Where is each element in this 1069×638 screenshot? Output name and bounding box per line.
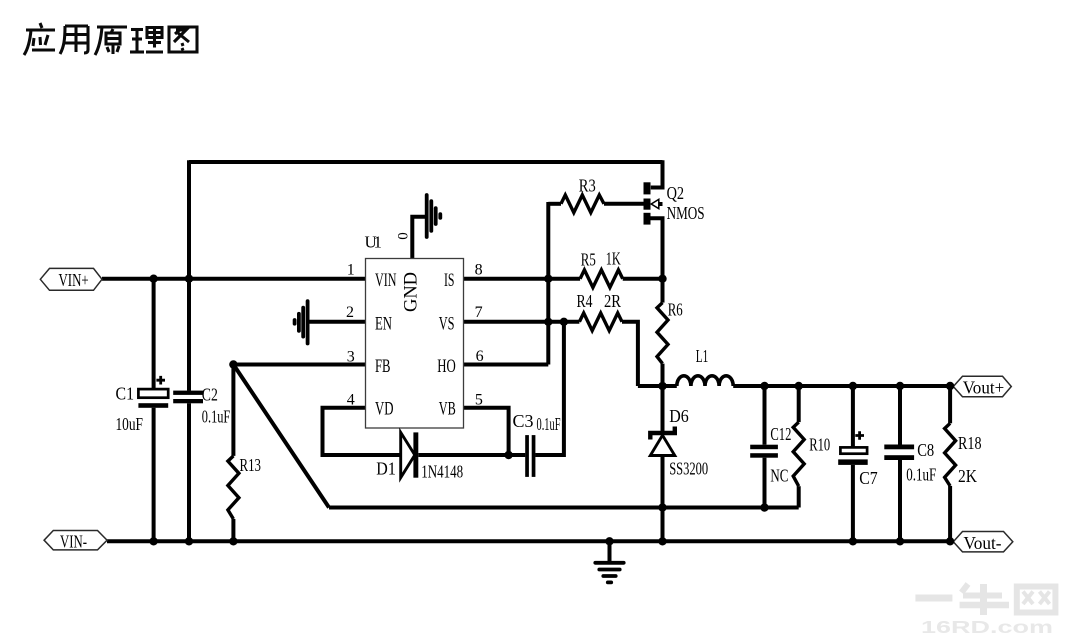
wire VD loop: pin4 left down and right to D1 anode xyxy=(323,408,401,455)
svg-text:L1: L1 xyxy=(696,346,709,366)
svg-text:R18: R18 xyxy=(958,433,982,453)
svg-text:C2: C2 xyxy=(202,385,218,405)
svg-text:GND: GND xyxy=(402,272,422,312)
op-amp U1 box xyxy=(366,259,464,429)
wire C7 top lead xyxy=(851,386,855,447)
wire C1 top lead xyxy=(152,279,156,389)
resistor R3 xyxy=(561,195,604,213)
svg-text:VIN+: VIN+ xyxy=(59,270,89,290)
wire R5 node down to R6 top xyxy=(661,279,665,303)
wire R3 right lead to Q2 gate xyxy=(604,202,644,206)
wire C3 right plate to VS riser xyxy=(535,322,564,455)
ground at U1 GND pin xyxy=(427,195,441,237)
capacitor C2 xyxy=(173,391,203,404)
svg-text:1K: 1K xyxy=(606,249,621,269)
capacitor C3 xyxy=(525,435,535,477)
svg-text:R4: R4 xyxy=(577,291,593,311)
svg-text:0: 0 xyxy=(396,232,412,240)
svg-text:VD: VD xyxy=(375,399,394,419)
svg-text:R13: R13 xyxy=(240,455,262,475)
resistor R18 xyxy=(945,423,956,486)
wire R13 bottom lead xyxy=(231,519,235,541)
wire IS pin8 to R5 xyxy=(464,277,581,281)
wire VB pin5 right and down to D1-C3 junction xyxy=(464,408,509,455)
svg-text:FB: FB xyxy=(375,357,391,377)
wire R13 top lead xyxy=(231,365,235,456)
wire top rail from C2 riser to Q2 drain xyxy=(189,160,663,164)
svg-text:Vout+: Vout+ xyxy=(963,378,1005,398)
title 应用原理图 (hand-drawn strokes) xyxy=(24,23,197,55)
svg-text:SS3200: SS3200 xyxy=(669,459,708,479)
svg-text:C12: C12 xyxy=(770,424,791,444)
char 应 xyxy=(24,23,55,55)
svg-text:3: 3 xyxy=(347,349,355,366)
inductor L1 xyxy=(677,376,733,386)
wire C1 bottom lead xyxy=(152,408,156,543)
transistor Q2 xyxy=(644,182,663,224)
svg-text:U1: U1 xyxy=(365,233,383,252)
svg-text:1: 1 xyxy=(347,262,355,279)
wire R3 left lead xyxy=(548,202,561,206)
svg-text:5: 5 xyxy=(475,392,483,409)
wire R18 bottom lead xyxy=(948,486,952,541)
svg-text:Q2: Q2 xyxy=(667,183,685,203)
svg-text:D6: D6 xyxy=(669,406,689,426)
wire bottom rail VIN- to Vout- xyxy=(107,539,953,543)
svg-text:C1: C1 xyxy=(116,384,135,404)
wire VIN+ line to U1 pin1 xyxy=(102,277,366,281)
svg-text:10uF: 10uF xyxy=(116,414,144,434)
node Vout- terminal xyxy=(953,532,1013,552)
svg-text:R5: R5 xyxy=(581,250,596,270)
wire riser x=548.3 R3 to HO xyxy=(546,202,550,365)
wire D6 anode lead to feedback junction and bottom rail xyxy=(661,456,665,542)
capacitor C1 xyxy=(138,376,168,408)
svg-text:VIN-: VIN- xyxy=(60,531,87,551)
capacitor C8 xyxy=(884,445,914,461)
svg-text:8: 8 xyxy=(475,262,483,279)
wire Q2 source lead down to R5 node xyxy=(651,218,663,278)
wire D1 cathode to VB junction xyxy=(418,453,525,457)
svg-text:2K: 2K xyxy=(958,466,977,486)
svg-text:NC: NC xyxy=(770,466,788,486)
wire FB diagonal to feedback line xyxy=(233,365,329,508)
char 原 xyxy=(95,27,127,55)
wire FB pin to node xyxy=(233,363,365,367)
wire HO pin6 to riser xyxy=(464,363,549,367)
wire Q2 drain lead xyxy=(651,160,663,187)
svg-text:VIN: VIN xyxy=(375,271,397,291)
wire EN ground to U1 pin2 xyxy=(309,320,365,324)
svg-text:7: 7 xyxy=(475,304,483,321)
capacitor C7 xyxy=(838,431,868,465)
svg-text:D1: D1 xyxy=(376,459,396,479)
wire C7 bottom lead xyxy=(851,465,855,541)
svg-text:0.1uF: 0.1uF xyxy=(202,407,231,427)
ground at U1 EN pin xyxy=(295,301,308,343)
svg-text:0.1uF: 0.1uF xyxy=(537,414,561,434)
svg-text:2: 2 xyxy=(346,304,354,321)
wire left riser x=189 top rail to C2 top plate xyxy=(187,160,191,391)
diode D6 SS3200 xyxy=(650,427,675,456)
resistor R10 xyxy=(793,422,804,486)
wire R10 bottom lead xyxy=(797,486,801,507)
char 用 xyxy=(60,26,88,54)
svg-text:HO: HO xyxy=(437,357,456,377)
wire feedback line y=507.5 xyxy=(329,506,799,510)
wire C8 bottom lead xyxy=(898,460,902,541)
wire C12 bottom lead xyxy=(763,458,767,508)
wire switch node to L1 xyxy=(638,384,677,388)
resistor R4 xyxy=(579,313,622,331)
svg-text:Vout-: Vout- xyxy=(964,533,1002,553)
node VIN- terminal xyxy=(44,531,107,550)
svg-text:C7: C7 xyxy=(859,468,878,488)
svg-text:R10: R10 xyxy=(809,434,830,454)
svg-text:R3: R3 xyxy=(579,176,596,196)
watermark 一牛网 16RD.com (light gray, bottom right) xyxy=(915,584,1055,615)
svg-text:IS: IS xyxy=(444,271,455,291)
char 理 xyxy=(130,28,163,53)
svg-text:C8: C8 xyxy=(917,440,934,460)
wire ground stub bottom xyxy=(608,541,612,561)
svg-text:6: 6 xyxy=(476,348,484,365)
wire R5 right to Q2 source line xyxy=(623,277,663,281)
char 图 xyxy=(169,27,197,52)
diode D1 1N4148 xyxy=(401,432,419,477)
node Vout+ terminal xyxy=(953,376,1011,396)
resistor R6 xyxy=(657,303,668,364)
svg-text:VB: VB xyxy=(439,399,456,419)
svg-text:NMOS: NMOS xyxy=(667,203,705,223)
wire C2 bottom plate to bottom rail xyxy=(187,403,191,543)
wire R10 top lead xyxy=(797,386,801,422)
svg-text:C3: C3 xyxy=(513,411,534,431)
svg-text:EN: EN xyxy=(375,314,392,334)
resistor R13 xyxy=(228,456,239,519)
svg-text:R6: R6 xyxy=(668,300,683,320)
capacitor C12 xyxy=(750,445,778,458)
node VIN+ terminal xyxy=(40,268,102,290)
svg-text:16RD.com: 16RD.com xyxy=(921,617,1053,637)
svg-text:VS: VS xyxy=(439,314,455,334)
wire U1 GND pin stub to ground xyxy=(412,217,425,259)
wire C8 top lead xyxy=(898,386,902,445)
svg-text:2R: 2R xyxy=(604,291,621,311)
ground at bottom rail xyxy=(595,563,623,583)
svg-text:1N4148: 1N4148 xyxy=(421,462,463,482)
svg-text:0.1uF: 0.1uF xyxy=(906,465,936,485)
wire L1 right to Vout+ xyxy=(733,384,953,388)
wire R6 bottom to switch node xyxy=(661,364,665,386)
wire R18 top lead xyxy=(948,386,952,423)
resistor R5 xyxy=(580,270,623,288)
svg-text:4: 4 xyxy=(347,392,355,409)
wire D6 cathode lead xyxy=(661,386,665,433)
wire R4 right to switch-node corner xyxy=(622,322,638,386)
wire VS pin7 to R4 xyxy=(464,320,580,324)
wire C12 top lead xyxy=(763,386,767,445)
